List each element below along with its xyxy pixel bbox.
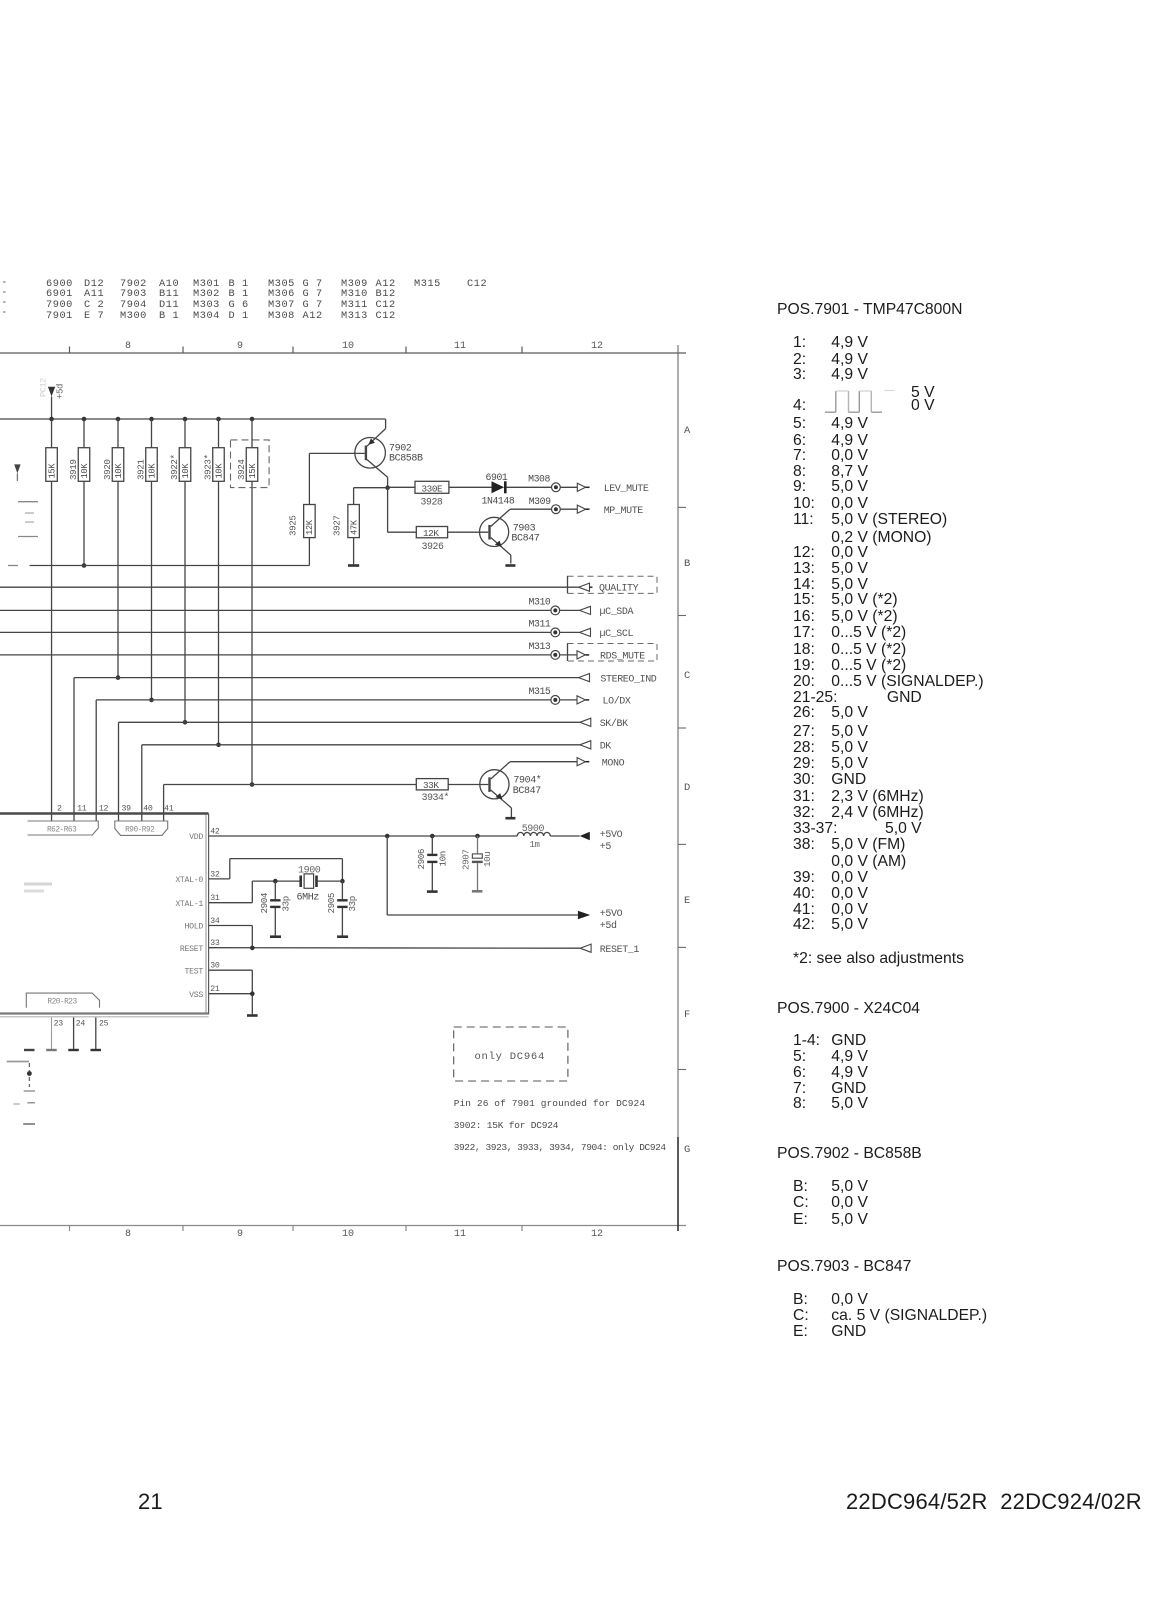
svg-text:10K: 10K [114,463,124,479]
wire +5 bus horizontal [0,419,386,429]
svg-text:15K: 15K [248,463,258,479]
power arrow +5d (top feed) [39,378,66,419]
svg-text:MP_MUTE: MP_MUTE [604,506,644,517]
svg-text:3926: 3926 [422,541,444,552]
svg-text:M309: M309 [529,496,551,507]
junction dot rail 2907 [475,834,480,839]
cut-off wire fragment below IC [7,1062,35,1125]
svg-text:R90-R92: R90-R92 [125,827,155,835]
signal RDS_MUTE / test point M313 [0,641,657,663]
signal DK [142,741,612,821]
svg-text:2: 2 [57,805,62,814]
svg-text:2907: 2907 [460,850,471,870]
svg-text:33p: 33p [347,896,358,911]
ground 2906 [427,890,438,893]
table column 3 designators [193,279,220,322]
IC 7901 top pin numbers [57,805,174,814]
svg-text:10u: 10u [482,852,493,867]
junction dot 3921/LO-DX [149,698,154,703]
svg-text:10K: 10K [80,463,90,479]
svg-text:3925: 3925 [288,516,299,536]
note line 1 [454,1098,646,1109]
resistor 3926 12K [416,527,488,553]
svg-text:TEST: TEST [185,967,204,976]
capacitor 2906 10n [416,836,449,891]
test point M309 [529,496,561,514]
transistor 7902 BC858B (PNP) [309,429,423,488]
svg-text:LEV_MUTE: LEV_MUTE [604,484,649,495]
resistor 3921 10K [135,419,157,700]
junction dot 3923/DK [216,743,221,748]
svg-text:+5VO: +5VO [600,830,623,841]
svg-text:31: 31 [210,894,220,903]
svg-text:DK: DK [600,742,612,753]
svg-text:42: 42 [210,827,220,836]
svg-text:XTAL-1: XTAL-1 [175,900,203,909]
svg-text:1m: 1m [530,840,540,850]
junction dot rail branch [385,834,390,839]
table column 5 designators [341,279,368,322]
svg-text:30: 30 [210,962,220,971]
svg-text:BC847: BC847 [513,786,541,797]
junction dots on +5 bus [49,417,254,422]
svg-text:32: 32 [210,870,220,879]
svg-text:3921: 3921 [135,459,146,480]
table column 4 designators [268,279,295,322]
wire XTAL-1 pin31 route [209,881,301,903]
grid column numbers bottom [119,1229,137,1240]
svg-text:3924: 3924 [236,459,247,480]
capacitor 2907 10u (electrolytic) [460,836,493,890]
cut-off power arrow (left edge) [14,464,20,481]
resistor 3919 10K [68,419,90,566]
transistor 7904 BC847 (NPN) [480,762,542,817]
footer page number and model codes [138,1489,163,1515]
wire XTAL-0 pin32 route [209,859,343,882]
svg-text:330E: 330E [422,483,444,494]
svg-text:+5VO: +5VO [600,909,623,920]
pin voltage list 7901 [911,384,935,402]
svg-text:1900: 1900 [298,865,321,876]
wire 7903 collector to MP_MUTE [510,508,551,510]
input arrow RESET_1 [580,944,639,956]
svg-text:BC858B: BC858B [389,454,423,465]
svg-text:2904: 2904 [259,892,270,913]
sheet top ruler [0,347,686,354]
svg-text:7904*: 7904* [513,775,541,787]
junction dot TEST/VSS [250,991,255,996]
wire 7902-collector to 3926 [388,488,417,533]
signal LO/DX / test point M315 [96,686,631,821]
svg-text:25: 25 [99,1020,109,1029]
output arrow MP_MUTE [560,505,643,517]
ground 2905 [337,935,348,938]
capacitor 2904 33p [259,881,291,935]
svg-text:6901: 6901 [486,472,508,483]
signal uC_SCL / test point M311 [0,619,634,641]
power arrow +5VO +5d [578,909,623,932]
inductor 5900 1m [517,824,550,850]
power arrow +5VO +5 [580,830,623,853]
resistor 3922* 10K [169,419,191,722]
svg-text:BC847: BC847 [511,534,539,545]
svg-text:PC12: PC12 [39,378,49,397]
junction dot 3924/7904-base line [250,782,255,787]
svg-text:24: 24 [76,1020,86,1029]
svg-text:5900: 5900 [522,824,545,835]
signal QUALITY [0,576,657,594]
IC 7901 bottom pin numbers [54,1020,109,1029]
svg-text:40: 40 [143,805,153,814]
test point M308 [528,474,560,492]
resistor 3934 33K [416,779,488,803]
svg-text:MONO: MONO [602,758,625,769]
svg-text:10K: 10K [214,463,224,479]
ground 3927 [348,564,359,567]
signal STEREO_IND [74,674,657,822]
IC 7901 faint inner marks [24,884,52,891]
svg-text:11: 11 [77,805,87,814]
svg-text:33: 33 [210,939,220,948]
svg-text:VSS: VSS [189,991,203,1000]
svg-text:+5d: +5d [600,920,617,932]
svg-text:µC_SCL: µC_SCL [600,629,634,640]
IC 7901 port R62-R63 [28,821,99,835]
svg-text:3920: 3920 [102,460,113,480]
ground 2904 [270,935,281,938]
svg-text:1N4148: 1N4148 [482,496,515,507]
svg-text:34: 34 [210,917,220,926]
resistor 3928 330E [388,481,449,507]
sheet bottom ruler [0,1226,686,1232]
signal uC_SDA / test point M310 [0,597,634,619]
ground 7903 emitter [505,564,515,567]
svg-text:VDD: VDD [189,833,203,842]
svg-text:M310: M310 [529,597,551,608]
svg-text:3923*: 3923* [202,454,213,480]
svg-text:3922*: 3922* [169,454,180,480]
signal SK/BK [119,718,629,821]
junction dot HOLD/RESET [250,946,255,951]
grid row letters right [684,425,690,437]
note box only DC964 [454,1027,568,1081]
ground VSS [247,1014,258,1017]
note line 3 [454,1142,667,1153]
pin 4 waveform sketch [825,391,894,413]
wire pin41 to 33K (7904 base line) [164,785,417,822]
resistor 3920 10K [102,419,124,678]
resistor 390x 15K [46,419,58,821]
svg-text:33p: 33p [281,896,292,911]
heading POS.7901 [777,301,962,319]
heading POS.7900 [777,1000,920,1018]
wire HOLD pin34 [209,926,253,948]
resistor 3924 15K [236,419,258,785]
junction dot rail 2906 [430,834,435,839]
wire VSS pin21 [209,994,253,1015]
svg-text:Pin 26 of 7901 grounded for DC: Pin 26 of 7901 grounded for DC924 [454,1098,646,1109]
capacitor 2905 33p [326,881,358,935]
svg-text:15K: 15K [47,463,57,479]
diode 6901 1N4148 [449,472,552,506]
heading POS.7902 [777,1145,922,1163]
junction dot crystal right node [340,879,345,884]
svg-text:only DC964: only DC964 [475,1051,546,1063]
svg-text:10n: 10n [438,851,449,866]
svg-text:12K: 12K [423,528,439,539]
signal MONO [510,758,625,770]
IC 7901 right pin labels [175,827,220,1000]
dashed option box around resistor 3924 [231,440,270,488]
svg-text:HOLD: HOLD [185,923,204,932]
svg-text:M315: M315 [529,686,551,697]
svg-text:12K: 12K [305,519,315,535]
svg-text:23: 23 [54,1020,64,1029]
svg-text:LO/DX: LO/DX [603,696,631,708]
heading POS.7903 [777,1258,911,1276]
svg-text:RESET_1: RESET_1 [600,945,640,956]
svg-text:R20-R23: R20-R23 [47,998,77,1006]
svg-text:µC_SDA: µC_SDA [600,607,634,618]
junction dot crystal left node [273,879,278,884]
wire +5d branch [387,836,578,915]
svg-text:STEREO_IND: STEREO_IND [600,674,656,685]
svg-text:10K: 10K [147,463,157,479]
crystal 1900 6MHz [297,865,343,903]
svg-text:+5: +5 [600,842,612,853]
svg-text:3928: 3928 [421,496,443,507]
IC 7901 port R90-R92 [115,821,168,835]
svg-text:47K: 47K [349,519,359,535]
output arrow LEV_MUTE [560,483,649,495]
svg-text:21: 21 [210,985,220,994]
grid column numbers top [119,341,137,352]
svg-text:M311: M311 [529,619,551,630]
sheet right border [678,345,686,1231]
IC 7901 bottom ground pins 22-25 [24,1018,101,1051]
resistor 3925 12K [288,453,316,565]
junction dot 3920/STEREO_IND [116,675,121,680]
svg-text:+5d: +5d [56,384,66,399]
table column 1 designators [46,279,73,322]
transistor 7903 BC847 (NPN) [480,509,540,563]
cut-off fragments left [18,502,38,537]
svg-text:M313: M313 [529,641,551,652]
table column 2 designators [120,279,147,322]
svg-text:10K: 10K [181,463,191,479]
junction dot 7902 collector node [385,485,390,490]
wire +5VO rail (pin42) [209,835,580,837]
svg-text:33K: 33K [423,780,439,791]
svg-text:QUALITY: QUALITY [599,584,639,595]
svg-text:3902: 15K for DC924: 3902: 15K for DC924 [454,1120,559,1131]
svg-text:6MHz: 6MHz [297,893,320,904]
svg-text:XTAL-0: XTAL-0 [175,876,203,885]
svg-text:3927: 3927 [332,516,343,536]
svg-text:3919: 3919 [68,460,79,480]
table column 6 designators [414,279,441,290]
svg-text:41: 41 [164,805,174,814]
junction dot 3922/SK-BK [183,720,188,725]
wire left bus y=565.5 [8,565,309,567]
resistor 3923* 10K [202,419,224,745]
resistor 3927 47K [332,488,388,565]
svg-text:12: 12 [99,805,109,814]
svg-text:R62-R63: R62-R63 [47,827,77,835]
svg-text:RDS_MUTE: RDS_MUTE [600,652,645,663]
wire RESET pin33 to RESET_1 [209,947,580,950]
svg-text:2905: 2905 [326,893,337,913]
svg-text:2906: 2906 [416,849,427,869]
IC 7901 TMP47C800N box [0,814,209,1017]
wire TEST pin30 [209,970,253,994]
svg-text:SK/BK: SK/BK [600,718,628,730]
note line 2 [454,1120,559,1131]
svg-text:RESET: RESET [180,945,203,954]
ground 2907 [472,890,483,893]
junction dot 3919/left-bus [82,563,87,568]
ground 7904 emitter [505,817,515,820]
svg-text:3922, 3923, 3933, 3934, 7904:: 3922, 3923, 3933, 3934, 7904: only DC924 [454,1142,667,1153]
svg-text:39: 39 [122,805,132,814]
svg-text:M308: M308 [528,474,550,485]
svg-text:3934*: 3934* [422,792,449,803]
left margin table dots [3,282,6,312]
IC 7901 port R20-R23 (bottom) [26,993,99,1008]
